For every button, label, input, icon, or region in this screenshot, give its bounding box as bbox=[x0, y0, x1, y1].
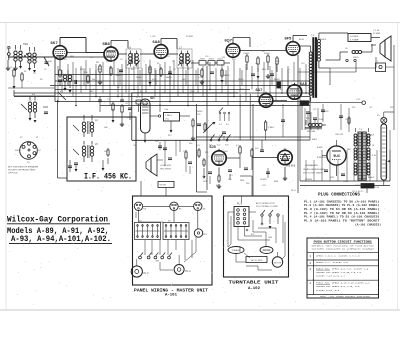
svg-text:6J5: 6J5 bbox=[210, 145, 216, 149]
svg-text:.05: .05 bbox=[64, 59, 67, 61]
svg-text:25000: 25000 bbox=[200, 59, 205, 61]
svg-text:C17: C17 bbox=[369, 107, 372, 109]
svg-text:YELLOW: YELLOW bbox=[335, 134, 343, 136]
svg-text:MFD: MFD bbox=[262, 69, 267, 71]
svg-text:A-101: A-101 bbox=[165, 294, 178, 298]
svg-text:VOL: VOL bbox=[165, 119, 170, 121]
svg-text:SWITCHES INDICATED IN SCHEMATI: SWITCHES INDICATED IN SCHEMATIC DIAGRAM bbox=[312, 247, 375, 250]
svg-text:AUTO SPEED-STOP: AUTO SPEED-STOP bbox=[256, 202, 276, 205]
svg-text:BOTTOM VIEW OF SPEAKER: BOTTOM VIEW OF SPEAKER bbox=[8, 166, 39, 169]
svg-text:MOTOR: MOTOR bbox=[274, 262, 282, 264]
svg-text:0.1: 0.1 bbox=[63, 74, 66, 76]
svg-text:R15: R15 bbox=[168, 135, 171, 137]
svg-text:0.1: 0.1 bbox=[258, 81, 261, 83]
svg-text:6F5: 6F5 bbox=[285, 36, 293, 41]
svg-text:50000: 50000 bbox=[264, 53, 270, 55]
svg-text:115V 60CY: 115V 60CY bbox=[355, 185, 365, 187]
svg-text:RED: RED bbox=[240, 180, 245, 182]
svg-text:OF PLUG.: OF PLUG. bbox=[8, 173, 19, 175]
svg-text:.01: .01 bbox=[106, 61, 109, 63]
svg-text:SW1: SW1 bbox=[23, 43, 29, 46]
svg-text:SECOND POS OPENS A-6,T-10, R-6: SECOND POS OPENS A-6,T-10, R-6 bbox=[316, 285, 360, 288]
svg-text:BLUE: BLUE bbox=[299, 39, 305, 41]
svg-text:.02: .02 bbox=[173, 69, 176, 71]
svg-text:PLUG: PLUG bbox=[374, 187, 380, 189]
svg-text:6.3: 6.3 bbox=[280, 89, 283, 91]
svg-text:C6: C6 bbox=[120, 59, 122, 61]
svg-text:R10: R10 bbox=[232, 59, 235, 61]
svg-text:R0: R0 bbox=[40, 79, 42, 81]
svg-text:C13: C13 bbox=[301, 63, 304, 65]
svg-text:FIELD: FIELD bbox=[15, 150, 21, 152]
svg-text:5U4: 5U4 bbox=[333, 154, 339, 158]
svg-text:1 MEG: 1 MEG bbox=[243, 53, 250, 55]
svg-text:C11: C11 bbox=[222, 57, 225, 59]
svg-text:C8: C8 bbox=[117, 87, 119, 89]
svg-text:C21: C21 bbox=[183, 151, 186, 153]
svg-text:SW2: SW2 bbox=[330, 177, 334, 179]
svg-text:GRN: GRN bbox=[268, 237, 273, 239]
svg-text:(A-101 CHASSIS): (A-101 CHASSIS) bbox=[355, 222, 381, 226]
svg-text:25000: 25000 bbox=[136, 77, 141, 79]
svg-text:BLACK: BLACK bbox=[320, 38, 327, 41]
svg-text:FIRST POS. OPENS A-10,T-10.CLO: FIRST POS. OPENS A-10,T-10.CLOSES A-C bbox=[316, 282, 370, 285]
svg-text:.05: .05 bbox=[133, 145, 136, 147]
svg-text:PL.3: PL.3 bbox=[144, 272, 150, 275]
svg-text:MFD: MFD bbox=[70, 56, 75, 58]
svg-text:.1: .1 bbox=[143, 61, 145, 63]
svg-text:10 MFD: 10 MFD bbox=[260, 179, 267, 181]
svg-text:MMFD: MMFD bbox=[116, 75, 122, 77]
svg-text:BLACK: BLACK bbox=[368, 176, 375, 179]
svg-text:C4: C4 bbox=[90, 57, 92, 59]
svg-text:Wilcox-Gay Corporation: Wilcox-Gay Corporation bbox=[7, 215, 108, 225]
svg-text:4: 4 bbox=[309, 282, 311, 285]
svg-text:CLOSES S-10 A-11,S-7: CLOSES S-10 A-11,S-7 bbox=[316, 275, 346, 278]
svg-text:FIELD: FIELD bbox=[353, 57, 359, 59]
svg-text:400: 400 bbox=[182, 79, 185, 81]
svg-text:C9: C9 bbox=[167, 56, 169, 58]
svg-text:C14: C14 bbox=[304, 105, 307, 107]
svg-text:PL.8: PL.8 bbox=[291, 190, 296, 192]
svg-text:CUT OFF: CUT OFF bbox=[262, 250, 271, 252]
svg-text:SOCKET OR FRONT VIEW: SOCKET OR FRONT VIEW bbox=[8, 170, 36, 172]
svg-text:R1: R1 bbox=[24, 71, 26, 73]
svg-text:OPENS S-6,S-4. CLOSES S-7,S-6: OPENS S-6,S-4. CLOSES S-7,S-6 bbox=[316, 255, 360, 258]
svg-text:L.T. 4F: L.T. 4F bbox=[373, 30, 380, 32]
svg-text:.05: .05 bbox=[255, 63, 258, 65]
svg-text:CLOSES A-10, R-6: CLOSES A-10, R-6 bbox=[316, 289, 340, 292]
svg-text:C3: C3 bbox=[33, 73, 35, 75]
svg-text:50000: 50000 bbox=[222, 151, 228, 153]
svg-text:C20: C20 bbox=[155, 141, 158, 143]
svg-text:BLACK: BLACK bbox=[368, 134, 375, 137]
svg-text:NOTE : ALL OTHER CONTACT POSIT: NOTE : ALL OTHER CONTACT POSITIONS bbox=[320, 295, 371, 298]
svg-text:1 MEG: 1 MEG bbox=[268, 127, 274, 129]
svg-text:MMFD: MMFD bbox=[274, 79, 280, 81]
svg-text:450V: 450V bbox=[322, 157, 327, 159]
svg-text:TURNTABLE UNIT: TURNTABLE UNIT bbox=[229, 280, 279, 286]
svg-text:6A7: 6A7 bbox=[256, 88, 263, 92]
svg-text:P.L.: P.L. bbox=[377, 115, 381, 117]
svg-text:R9: R9 bbox=[262, 51, 264, 53]
svg-text:LOUD SPK.: LOUD SPK. bbox=[160, 165, 172, 167]
svg-text:R18: R18 bbox=[246, 183, 249, 185]
svg-text:47 MMF: 47 MMF bbox=[373, 33, 381, 35]
svg-text:C16: C16 bbox=[345, 119, 348, 121]
svg-text:S9 SW: S9 SW bbox=[160, 185, 166, 187]
svg-text:SECOND POS OPENS S-5,M6,S-5,T-: SECOND POS OPENS S-5,M6,S-5,T-6 bbox=[316, 271, 362, 274]
svg-text:PREAMP: PREAMP bbox=[232, 249, 241, 252]
svg-text:1: 1 bbox=[309, 255, 311, 258]
svg-text:GRN: GRN bbox=[203, 181, 208, 183]
svg-text:LO RES: LO RES bbox=[350, 36, 359, 38]
svg-text:6V6 6K6: 6V6 6K6 bbox=[286, 165, 296, 168]
svg-text:C15: C15 bbox=[313, 109, 316, 111]
svg-text:0.1: 0.1 bbox=[198, 77, 201, 79]
svg-text:RED: RED bbox=[347, 149, 352, 151]
svg-text:250V: 250V bbox=[190, 91, 195, 93]
svg-text:3: 3 bbox=[309, 268, 311, 271]
svg-text:300: 300 bbox=[92, 79, 95, 81]
svg-text:VOL: VOL bbox=[197, 114, 201, 116]
svg-text:25000: 25000 bbox=[209, 59, 214, 61]
svg-text:R20: R20 bbox=[325, 111, 328, 113]
svg-text:6Q7: 6Q7 bbox=[225, 38, 232, 43]
svg-text:A-93, A-94,A-101,A-102.: A-93, A-94,A-101,A-102. bbox=[11, 234, 111, 244]
svg-text:C10: C10 bbox=[205, 56, 208, 58]
svg-text:PLUG CONNECTIONS: PLUG CONNECTIONS bbox=[318, 194, 360, 198]
svg-text:S.1: S.1 bbox=[219, 124, 222, 126]
svg-text:6K7: 6K7 bbox=[51, 40, 58, 45]
svg-text:FUSE: FUSE bbox=[343, 181, 349, 183]
svg-text:R16: R16 bbox=[189, 143, 192, 145]
svg-text:6U5: 6U5 bbox=[150, 96, 155, 100]
svg-text:FIRST POS. OPENS A-6,T-6. CLOS: FIRST POS. OPENS A-6,T-6. CLOSES S-9 bbox=[316, 267, 369, 270]
svg-text:C14A: C14A bbox=[318, 118, 323, 121]
svg-text:C.A.: C.A. bbox=[164, 108, 169, 111]
svg-text:MMFD: MMFD bbox=[166, 77, 172, 79]
svg-text:R22: R22 bbox=[390, 107, 393, 109]
svg-text:6.3: 6.3 bbox=[60, 91, 63, 93]
svg-text:OPENS S-7. CLOSES S-9: OPENS S-7. CLOSES S-9 bbox=[316, 261, 349, 264]
svg-text:600 OHM: 600 OHM bbox=[307, 131, 316, 133]
svg-text:L.7 4F: L.7 4F bbox=[150, 36, 156, 38]
svg-text:PL.4: PL.4 bbox=[186, 270, 192, 273]
svg-text:R12: R12 bbox=[276, 61, 279, 63]
svg-text:MMFD: MMFD bbox=[224, 75, 230, 77]
svg-text:PILOT SPEED CLOSED: PILOT SPEED CLOSED bbox=[256, 206, 278, 208]
svg-text:R4: R4 bbox=[131, 69, 133, 71]
svg-text:SET 45 RPM: SET 45 RPM bbox=[251, 260, 263, 262]
svg-text:8 MFD: 8 MFD bbox=[317, 147, 323, 149]
svg-text:50000: 50000 bbox=[197, 111, 202, 113]
svg-text:6A8: 6A8 bbox=[153, 39, 161, 44]
svg-text:R21: R21 bbox=[352, 107, 355, 109]
svg-text:C9: C9 bbox=[172, 61, 174, 63]
svg-text:47 MMF: 47 MMF bbox=[186, 36, 194, 38]
svg-text:I.F. 456 KC.: I.F. 456 KC. bbox=[84, 173, 132, 182]
svg-text:R7: R7 bbox=[187, 69, 189, 71]
svg-text:0.05: 0.05 bbox=[152, 79, 156, 81]
svg-text:50000: 50000 bbox=[238, 79, 243, 81]
svg-text:S.2: S.2 bbox=[226, 124, 229, 126]
svg-text:AVC: AVC bbox=[240, 88, 244, 91]
svg-text:BRN: BRN bbox=[274, 181, 279, 183]
svg-text:6B8: 6B8 bbox=[103, 41, 111, 46]
svg-text:R5: R5 bbox=[157, 63, 159, 65]
svg-text:C1: C1 bbox=[10, 67, 12, 69]
svg-text:250M: 250M bbox=[97, 69, 102, 71]
svg-text:GRD TERM: GRD TERM bbox=[160, 169, 171, 171]
svg-text:PL.2: PL.2 bbox=[136, 97, 141, 99]
svg-text:AVC: AVC bbox=[90, 90, 94, 93]
svg-text:4.7 MMF: 4.7 MMF bbox=[350, 40, 359, 42]
svg-text:.01: .01 bbox=[287, 69, 290, 71]
svg-text:R6: R6 bbox=[112, 109, 114, 111]
svg-text:2: 2 bbox=[309, 262, 311, 265]
svg-text:PUSH BUTTON CIRCUIT FUNCTIONS: PUSH BUTTON CIRCUIT FUNCTIONS bbox=[314, 240, 372, 243]
svg-text:A-102: A-102 bbox=[248, 287, 261, 291]
svg-text:C2: C2 bbox=[44, 69, 46, 71]
svg-text:2 MEG: 2 MEG bbox=[165, 115, 172, 117]
svg-text:MMFD: MMFD bbox=[80, 69, 86, 71]
svg-text:C22: C22 bbox=[228, 179, 231, 181]
svg-text:8MFD: 8MFD bbox=[312, 139, 318, 141]
svg-text:PL.6: PL.6 bbox=[237, 203, 243, 206]
svg-text:C23: C23 bbox=[262, 185, 265, 187]
